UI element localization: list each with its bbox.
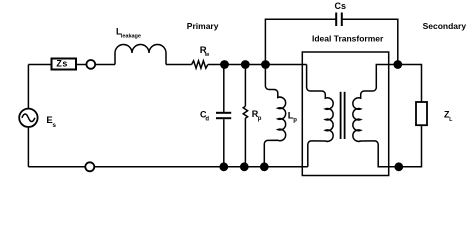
svg-text:w: w [204,52,210,58]
svg-text:p: p [258,116,262,122]
svg-text:leakage: leakage [121,34,141,40]
svg-text:s: s [52,122,56,129]
svg-text:Ideal Transformer: Ideal Transformer [312,34,384,44]
svg-text:Cs: Cs [335,1,347,11]
svg-text:L: L [449,117,452,123]
svg-text:Secondary: Secondary [423,21,467,31]
svg-text:Primary: Primary [187,21,219,31]
svg-text:p: p [293,117,297,123]
svg-text:d: d [205,117,209,123]
svg-text:Zs: Zs [56,59,68,69]
